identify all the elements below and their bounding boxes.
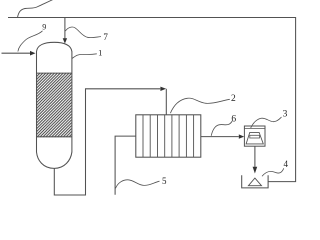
svg-text:9: 9 — [42, 22, 46, 31]
arrowhead right at riser corner — [160, 87, 166, 91]
press device 3 trapezoid body — [246, 132, 263, 144]
column vessel 1 top dome — [37, 42, 72, 51]
wire left inlet line 9 into column — [2, 52, 31, 54]
press device 3 inner top line — [244, 128, 265, 130]
leader line to label 6 — [211, 121, 232, 136]
svg-text:4: 4 — [284, 159, 289, 169]
product pile triangle in collector 4 — [248, 178, 261, 186]
wire coolant inlet line 5 to exchanger left side — [115, 136, 136, 195]
press device 3 outer case — [244, 126, 265, 146]
arrowhead right into column side — [30, 51, 36, 56]
leader line to label 4 — [262, 168, 284, 176]
leader line top-left (number cut off at image edge) — [18, 0, 57, 18]
packing bed hatched section of column 1 — [37, 73, 71, 137]
arrowhead down into column top — [63, 38, 67, 43]
leader line to label 5 — [116, 180, 160, 189]
svg-text:2: 2 — [231, 94, 236, 104]
column vessel 1 left wall — [36, 51, 38, 152]
wire column bottoms pipe down, right and riser up to exchanger — [54, 89, 160, 195]
press device 3 inner bar — [250, 135, 260, 138]
svg-text:3: 3 — [283, 110, 288, 120]
wire feed drop into column at x=64.9 — [64, 18, 66, 39]
wire exchanger outlet to press 3 — [201, 136, 239, 138]
column vessel 1 right wall — [71, 51, 73, 152]
svg-text:5: 5 — [162, 176, 167, 186]
svg-text:6: 6 — [231, 114, 236, 124]
svg-text:1: 1 — [98, 47, 102, 57]
svg-text:7: 7 — [103, 32, 108, 42]
leader line to label 9 — [18, 31, 43, 52]
leader line to label 1 — [72, 54, 97, 59]
heat exchanger 2 tube lines — [143, 115, 194, 157]
collector tank 4 open box — [242, 175, 268, 188]
arrowhead down into collector 4 — [253, 167, 258, 174]
leader line to label 3 — [251, 117, 282, 128]
leader line to label 7 — [65, 27, 101, 38]
leader line to label 2 — [170, 98, 229, 113]
heat exchanger 2 shell — [136, 115, 201, 157]
wire entry drop into exchanger 2 — [165, 89, 167, 115]
wire drop from press 3 to collector 4 — [254, 146, 256, 167]
column vessel 1 bottom dome — [37, 152, 72, 168]
wire top recycle line from x=8 to right side, down and to collector — [8, 18, 296, 182]
arrowhead right into press 3 — [239, 134, 244, 138]
